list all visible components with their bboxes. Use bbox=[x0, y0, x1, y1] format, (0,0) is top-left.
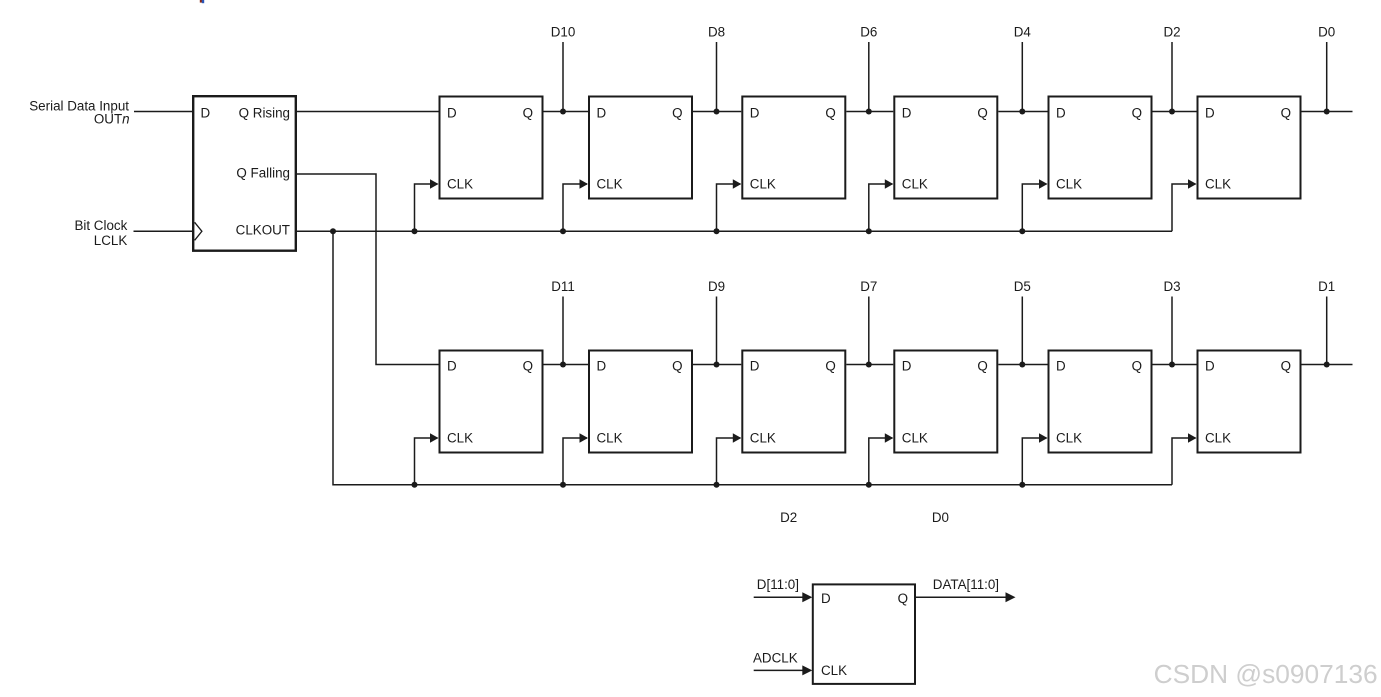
node D6 bbox=[860, 24, 877, 111]
svg-text:D11: D11 bbox=[551, 279, 575, 294]
svg-text:CLK: CLK bbox=[821, 663, 847, 678]
node D9 bbox=[708, 279, 725, 365]
wire U10.Q to U11.D bbox=[846, 364, 893, 366]
wire U6.Q to U7.D bbox=[1153, 111, 1197, 113]
svg-text:D: D bbox=[1205, 359, 1215, 374]
wire U5.Q to U6.D bbox=[998, 111, 1047, 113]
svg-text:Bit Clock: Bit Clock bbox=[74, 218, 127, 233]
wire clock to U9.CLK bbox=[563, 438, 587, 485]
junction clock rail to U2 bbox=[412, 228, 418, 234]
register U14 bbox=[813, 584, 915, 684]
svg-text:D9: D9 bbox=[708, 279, 725, 294]
wire ADCLK into U14.CLK bbox=[754, 665, 813, 675]
svg-text:CLK: CLK bbox=[902, 177, 928, 192]
junction D1 tap bbox=[1324, 362, 1330, 368]
node Serial Data Input OUTn bbox=[29, 98, 129, 126]
wire U3.Q to U4.D bbox=[693, 111, 741, 113]
svg-text:Q: Q bbox=[898, 591, 908, 606]
svg-text:D: D bbox=[750, 106, 760, 121]
svg-text:Q: Q bbox=[672, 106, 682, 121]
junction D2 tap bbox=[1169, 109, 1175, 115]
svg-text:CLK: CLK bbox=[1056, 431, 1082, 446]
node D7 bbox=[860, 279, 877, 365]
svg-text:CLK: CLK bbox=[447, 431, 473, 446]
svg-text:CLK: CLK bbox=[750, 431, 776, 446]
cropped colored text fragment at top edge bbox=[200, 0, 204, 3]
wire D[11:0] into U14.D bbox=[754, 592, 813, 602]
wire U1 Q Rising to U2.D bbox=[297, 111, 439, 113]
junction clock rail to U6 bbox=[1019, 228, 1025, 234]
node D0 bbox=[1318, 24, 1335, 111]
svg-text:D0: D0 bbox=[932, 510, 949, 525]
node D1 bbox=[1318, 279, 1335, 365]
junction D9 tap bbox=[714, 362, 720, 368]
svg-text:Q: Q bbox=[523, 359, 533, 374]
wire clock to U10.CLK bbox=[717, 438, 741, 485]
svg-text:LCLK: LCLK bbox=[94, 233, 128, 248]
node D3 bbox=[1163, 279, 1180, 365]
junction D4 tap bbox=[1019, 109, 1025, 115]
junction clock rail to U8 bbox=[412, 482, 418, 488]
svg-text:CLK: CLK bbox=[597, 177, 623, 192]
svg-text:D: D bbox=[201, 106, 211, 121]
wire clock to U7.CLK bbox=[1172, 184, 1196, 231]
flip-flop U5 bbox=[894, 97, 997, 199]
svg-text:CLK: CLK bbox=[1056, 177, 1082, 192]
U1 clock chevron bbox=[195, 222, 202, 240]
junction D11 tap bbox=[560, 362, 566, 368]
svg-text:D: D bbox=[447, 359, 457, 374]
svg-text:D: D bbox=[1205, 106, 1215, 121]
svg-text:D3: D3 bbox=[1163, 279, 1180, 294]
wire clock to U2.CLK bbox=[415, 184, 438, 231]
junction D0 tap bbox=[1324, 109, 1330, 115]
wire U12.Q to U13.D bbox=[1153, 364, 1197, 366]
junction D5 tap bbox=[1019, 362, 1025, 368]
svg-text:CLK: CLK bbox=[1205, 431, 1231, 446]
wire U8.Q to U9.D bbox=[544, 364, 589, 366]
junction D6 tap bbox=[866, 109, 872, 115]
junction D3 tap bbox=[1169, 362, 1175, 368]
svg-text:Q: Q bbox=[1132, 106, 1142, 121]
wire Serial Data Input to U1.D bbox=[134, 111, 193, 113]
svg-text:CLK: CLK bbox=[597, 431, 623, 446]
node D5 bbox=[1014, 279, 1031, 365]
junction clock rail to U12 bbox=[1019, 482, 1025, 488]
flip-flop U3 bbox=[589, 97, 692, 199]
svg-text:OUTn: OUTn bbox=[94, 111, 130, 126]
flip-flop U10 bbox=[742, 351, 845, 453]
svg-text:D: D bbox=[1056, 359, 1066, 374]
flip-flop U13 bbox=[1198, 351, 1301, 453]
flip-flop U4 bbox=[742, 97, 845, 199]
svg-text:D6: D6 bbox=[860, 24, 877, 39]
node D10 bbox=[551, 24, 576, 111]
junction clock rail to U10 bbox=[714, 482, 720, 488]
svg-text:D2: D2 bbox=[780, 510, 797, 525]
svg-text:D2: D2 bbox=[1163, 24, 1180, 39]
wire U9.Q to U10.D bbox=[693, 364, 741, 366]
svg-text:D: D bbox=[821, 591, 831, 606]
flip-flop U11 bbox=[894, 351, 997, 453]
node D2 bbox=[1163, 24, 1180, 111]
wire U11.Q to U12.D bbox=[998, 364, 1047, 366]
svg-text:D: D bbox=[447, 106, 457, 121]
junction clock rail to U4 bbox=[714, 228, 720, 234]
svg-text:Q: Q bbox=[523, 106, 533, 121]
wire U1 Q Falling to U8.D bbox=[297, 174, 439, 365]
node D4 bbox=[1014, 24, 1032, 111]
junction clock rail to U5 bbox=[866, 228, 872, 234]
svg-text:Q: Q bbox=[825, 359, 835, 374]
wire U14.Q to DATA[11:0] output bbox=[916, 592, 1016, 602]
wire clock to U4.CLK bbox=[717, 184, 741, 231]
junction clock rail to U3 bbox=[560, 228, 566, 234]
junction D8 tap bbox=[714, 109, 720, 115]
junction D10 tap bbox=[560, 109, 566, 115]
svg-text:Q: Q bbox=[672, 359, 682, 374]
wire U7.Q output bbox=[1302, 111, 1353, 113]
svg-text:D: D bbox=[902, 359, 912, 374]
svg-text:Q: Q bbox=[1281, 359, 1291, 374]
svg-text:DATA[11:0]: DATA[11:0] bbox=[933, 577, 999, 592]
svg-text:D: D bbox=[597, 359, 607, 374]
flip-flop U2 bbox=[440, 97, 543, 199]
svg-text:D: D bbox=[597, 106, 607, 121]
flip-flop U6 bbox=[1049, 97, 1152, 199]
svg-text:D1: D1 bbox=[1318, 279, 1335, 294]
node Bit Clock LCLK bbox=[74, 218, 127, 248]
svg-text:Q: Q bbox=[1281, 106, 1291, 121]
node D11 bbox=[551, 279, 575, 365]
wire clock to U8.CLK bbox=[415, 438, 438, 485]
svg-text:D10: D10 bbox=[551, 24, 576, 39]
DDR input flip-flop U1 bbox=[193, 96, 296, 251]
flip-flop U9 bbox=[589, 351, 692, 453]
wire U2.Q to U3.D bbox=[544, 111, 589, 113]
svg-text:D0: D0 bbox=[1318, 24, 1335, 39]
wire clock to U13.CLK bbox=[1172, 438, 1196, 485]
svg-text:D[11:0]: D[11:0] bbox=[757, 577, 799, 592]
wire U4.Q to U5.D bbox=[846, 111, 893, 113]
svg-text:ADCLK: ADCLK bbox=[753, 650, 798, 665]
svg-text:CLK: CLK bbox=[447, 177, 473, 192]
svg-text:D: D bbox=[902, 106, 912, 121]
svg-text:CLKOUT: CLKOUT bbox=[236, 223, 290, 238]
flip-flop U8 bbox=[440, 351, 543, 453]
svg-text:CLK: CLK bbox=[750, 177, 776, 192]
svg-text:D7: D7 bbox=[860, 279, 877, 294]
svg-text:Q: Q bbox=[825, 106, 835, 121]
svg-text:Q: Q bbox=[1132, 359, 1142, 374]
wire Bit Clock to U1.CLK bbox=[134, 230, 194, 232]
wire clock to U5.CLK bbox=[869, 184, 893, 231]
wire clock to U11.CLK bbox=[869, 438, 893, 485]
junction CLKOUT branch to lower rail bbox=[330, 228, 336, 234]
svg-text:Q: Q bbox=[977, 106, 987, 121]
svg-text:CLK: CLK bbox=[1205, 177, 1231, 192]
wire clock to U6.CLK bbox=[1022, 184, 1046, 231]
flip-flop U7 bbox=[1198, 97, 1301, 199]
svg-text:Q: Q bbox=[977, 359, 987, 374]
junction clock rail to U9 bbox=[560, 482, 566, 488]
svg-text:D5: D5 bbox=[1014, 279, 1031, 294]
svg-text:Q Rising: Q Rising bbox=[239, 106, 290, 121]
svg-text:D8: D8 bbox=[708, 24, 725, 39]
wire clock to U12.CLK bbox=[1022, 438, 1046, 485]
node D8 bbox=[708, 24, 725, 111]
svg-text:D4: D4 bbox=[1014, 24, 1032, 39]
svg-text:D: D bbox=[1056, 106, 1066, 121]
svg-text:CSDN @s0907136: CSDN @s0907136 bbox=[1154, 659, 1378, 689]
svg-text:CLK: CLK bbox=[902, 431, 928, 446]
wire CLKOUT rail (top row) bbox=[297, 230, 1173, 232]
junction clock rail to U11 bbox=[866, 482, 872, 488]
junction D7 tap bbox=[866, 362, 872, 368]
svg-text:Q Falling: Q Falling bbox=[236, 166, 290, 181]
wire U13.Q output bbox=[1302, 364, 1353, 366]
svg-text:D: D bbox=[750, 359, 760, 374]
wire CLKOUT to lower clock rail bbox=[333, 231, 1172, 484]
flip-flop U12 bbox=[1049, 351, 1152, 453]
wire clock to U3.CLK bbox=[563, 184, 587, 231]
